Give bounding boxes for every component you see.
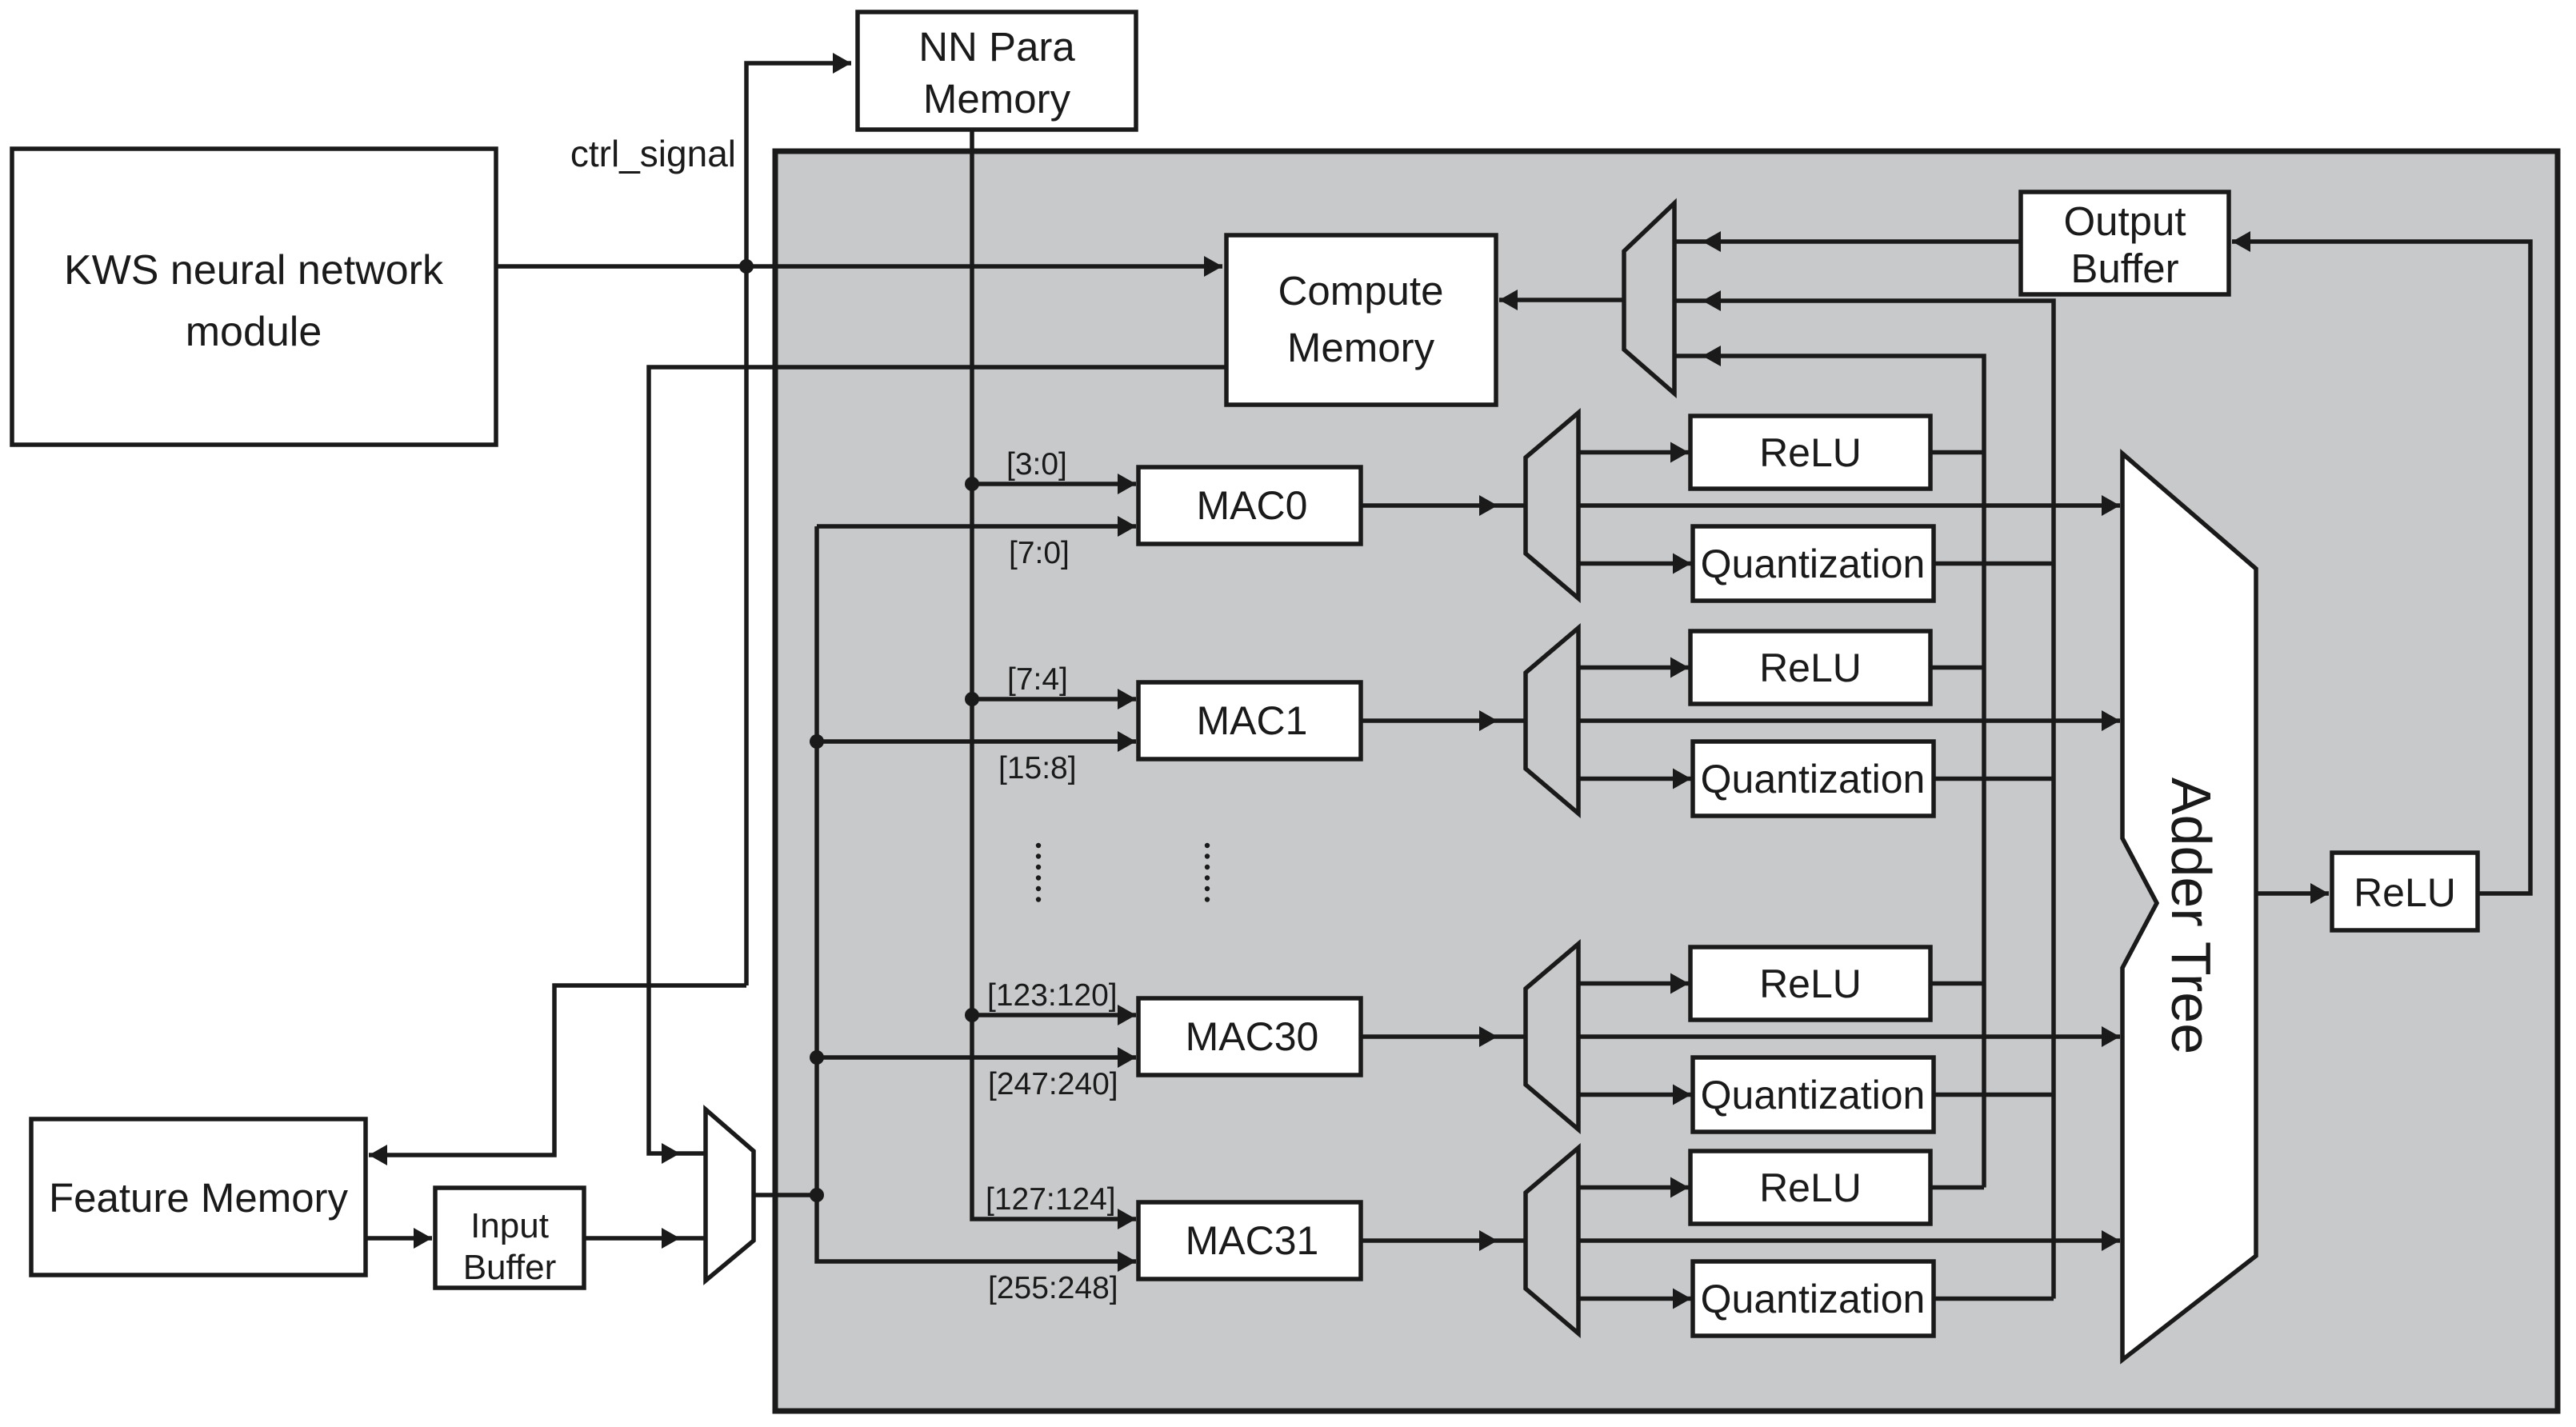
svg-text:[123:120]: [123:120] — [987, 978, 1118, 1013]
svg-text:[247:240]: [247:240] — [988, 1067, 1118, 1101]
svg-text:Output: Output — [2063, 198, 2186, 244]
svg-text:ReLU: ReLU — [1759, 1165, 1862, 1210]
svg-text:ReLU: ReLU — [1759, 646, 1862, 690]
svg-text:[7:4]: [7:4] — [1007, 662, 1068, 697]
svg-text:Memory: Memory — [1287, 325, 1435, 370]
svg-text:[7:0]: [7:0] — [1009, 536, 1070, 570]
svg-text:MAC1: MAC1 — [1197, 698, 1308, 743]
svg-text:[127:124]: [127:124] — [986, 1182, 1116, 1217]
svg-text:Memory: Memory — [923, 76, 1071, 122]
svg-text:Quantization: Quantization — [1701, 757, 1926, 801]
svg-text:[15:8]: [15:8] — [998, 751, 1077, 785]
svg-text:Quantization: Quantization — [1701, 542, 1926, 586]
svg-text:NN Para: NN Para — [918, 24, 1075, 70]
svg-text:KWS neural network: KWS neural network — [64, 247, 444, 294]
svg-text:ReLU: ReLU — [1759, 961, 1862, 1006]
svg-text:Input: Input — [470, 1206, 549, 1245]
svg-text:Compute: Compute — [1278, 268, 1444, 314]
svg-text:MAC30: MAC30 — [1186, 1014, 1319, 1059]
svg-text:Feature Memory: Feature Memory — [49, 1175, 349, 1221]
svg-text:module: module — [186, 309, 322, 355]
svg-text:Buffer: Buffer — [463, 1248, 557, 1287]
svg-text:[255:248]: [255:248] — [988, 1271, 1118, 1305]
svg-text:ctrl_signal: ctrl_signal — [570, 133, 736, 174]
svg-text:Quantization: Quantization — [1701, 1073, 1926, 1117]
svg-text:Quantization: Quantization — [1701, 1277, 1926, 1321]
svg-text:ReLU: ReLU — [1759, 430, 1862, 475]
svg-text:MAC31: MAC31 — [1186, 1218, 1319, 1263]
svg-text:Buffer: Buffer — [2070, 246, 2178, 291]
svg-text:[3:0]: [3:0] — [1006, 447, 1067, 482]
svg-text:Adder Tree: Adder Tree — [2160, 777, 2222, 1054]
svg-text:ReLU: ReLU — [2354, 870, 2456, 915]
svg-text:MAC0: MAC0 — [1197, 483, 1308, 528]
